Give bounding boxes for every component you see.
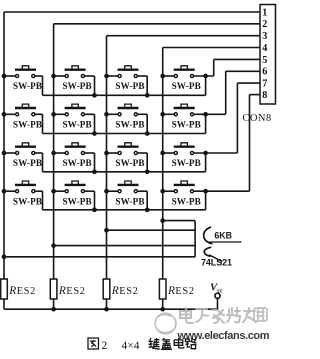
junction row 1 / drop c2 bbox=[92, 93, 97, 98]
push-button switch SW-PB row 3 col 2 bbox=[54, 143, 95, 168]
svg-text:SW-PB: SW-PB bbox=[172, 81, 201, 91]
push-button switch SW-PB row 3 col 3 bbox=[107, 143, 148, 168]
wire drop from SW r4c4 right terminal to row line 4 bbox=[205, 191, 207, 210]
resistor R1 RES2 body bbox=[1, 279, 8, 299]
connector CON8 box bbox=[260, 5, 276, 105]
svg-text:CON8: CON8 bbox=[243, 113, 272, 124]
push-button switch SW-PB row 2 col 2 bbox=[54, 104, 95, 129]
wire drop from SW r1c1 right terminal to row line 1 bbox=[42, 76, 44, 95]
svg-text:4×4: 4×4 bbox=[122, 340, 140, 352]
svg-text:RES2: RES2 bbox=[111, 285, 139, 297]
wire net COL1: lower lead from resistor R1 to bottom rail bbox=[3, 299, 5, 309]
svg-text:SW-PB: SW-PB bbox=[172, 196, 201, 206]
push-button switch SW-PB row 3 col 1 bbox=[4, 143, 43, 168]
junction col4 bus / SW r4c4 left stub bbox=[160, 189, 165, 194]
leader line under 6KB bbox=[209, 241, 242, 243]
junction col2 bus / SW r4c2 left stub bbox=[51, 189, 56, 194]
power terminal Vcc circle bbox=[215, 293, 220, 298]
wire gate bar right edge bbox=[194, 221, 196, 257]
svg-text:8: 8 bbox=[262, 90, 267, 101]
svg-text:SW-PB: SW-PB bbox=[62, 196, 91, 206]
wire drop from SW r3c2 right terminal to row line 3 bbox=[94, 153, 96, 172]
wire net COL3: lower lead from resistor R3 to bottom rail bbox=[106, 299, 108, 309]
wire net COL2: vertical column bus bbox=[53, 24, 55, 279]
cable tear mark upper (6KB) bbox=[204, 227, 213, 244]
junction row 3 / drop c3 bbox=[145, 169, 150, 174]
wire drop from SW r4c2 right terminal to row line 4 bbox=[94, 191, 96, 210]
svg-text:SW-PB: SW-PB bbox=[13, 81, 42, 91]
svg-text:6: 6 bbox=[262, 67, 267, 78]
wire Vcc stub bbox=[217, 298, 219, 309]
svg-text:4: 4 bbox=[262, 43, 267, 54]
wire net COL1: vertical column bus bbox=[3, 12, 5, 279]
junction drop c4 row 2 bbox=[203, 112, 208, 117]
push-button switch SW-PB row 4 col 4 bbox=[163, 181, 250, 206]
junction drop c4 row 1 bbox=[203, 74, 208, 79]
svg-text:RES2: RES2 bbox=[167, 285, 195, 297]
svg-text:SW-PB: SW-PB bbox=[62, 158, 91, 168]
svg-text:SW-PB: SW-PB bbox=[115, 81, 144, 91]
svg-text:6KB: 6KB bbox=[214, 230, 232, 240]
junction drop c4 row 3 bbox=[203, 151, 208, 156]
svg-text:2: 2 bbox=[262, 19, 267, 30]
wire row line 3 bbox=[43, 171, 206, 173]
caption 图 2 4x4 keypad circuit bbox=[88, 338, 196, 352]
push-button switch SW-PB row 2 col 1 bbox=[4, 104, 43, 129]
wire net ROW4: vertical riser bbox=[249, 95, 251, 192]
wire drop from SW r3c3 right terminal to row line 3 bbox=[146, 153, 148, 172]
svg-text:SW-PB: SW-PB bbox=[62, 120, 91, 130]
junction row 2 / drop c2 bbox=[92, 131, 97, 136]
wire net COL2: lower lead from resistor R2 to bottom rail bbox=[53, 299, 55, 309]
push-button switch SW-PB row 2 col 4 bbox=[163, 104, 226, 129]
wire COL1 tap to gate bar bbox=[4, 256, 195, 258]
push-button switch SW-PB row 1 col 2 bbox=[54, 66, 95, 91]
wire net ROW3: horizontal run to CON8 pin 7 bbox=[237, 82, 260, 84]
junction drop c4 row 4 bbox=[203, 189, 208, 194]
resistor R3 RES2 body bbox=[103, 279, 110, 299]
wire COL2 tap to gate bar bbox=[54, 245, 196, 247]
wire net COL4: lower lead from resistor R4 to bottom rail bbox=[162, 299, 164, 309]
junction col3 bus / SW r1c3 left stub bbox=[104, 74, 109, 79]
svg-text:SW-PB: SW-PB bbox=[13, 196, 42, 206]
svg-text:3: 3 bbox=[262, 31, 267, 42]
junction COL4 tap bbox=[160, 218, 165, 223]
svg-text:cc: cc bbox=[217, 287, 223, 294]
svg-text:SW-PB: SW-PB bbox=[172, 120, 201, 130]
junction col4 bus / SW r3c4 left stub bbox=[160, 151, 165, 156]
wire net ROW1: vertical riser bbox=[213, 59, 215, 76]
wire drop from SW r2c4 right terminal to row line 2 bbox=[205, 114, 207, 133]
svg-text:RES2: RES2 bbox=[8, 285, 36, 297]
wire net ROW2: vertical riser bbox=[225, 71, 227, 114]
junction col4 bus / SW r1c4 left stub bbox=[160, 74, 165, 79]
wire drop from SW r3c1 right terminal to row line 3 bbox=[42, 153, 44, 172]
junction bottom rail / R3 bbox=[104, 307, 109, 312]
wire net COL1: horizontal run to CON8 pin 1 bbox=[4, 11, 260, 13]
junction col2 bus / SW r1c2 left stub bbox=[51, 74, 56, 79]
push-button switch SW-PB row 4 col 3 bbox=[107, 181, 148, 206]
svg-text:5: 5 bbox=[262, 55, 267, 66]
svg-text:SW-PB: SW-PB bbox=[62, 81, 91, 91]
wire drop from SW r2c2 right terminal to row line 2 bbox=[94, 114, 96, 133]
wire net COL4: vertical column bus bbox=[162, 48, 164, 280]
svg-text:SW-PB: SW-PB bbox=[172, 158, 201, 168]
wire net ROW1: horizontal run to CON8 pin 5 bbox=[214, 58, 260, 60]
junction row 4 / drop c3 bbox=[145, 207, 150, 212]
wire drop from SW r4c1 right terminal to row line 4 bbox=[42, 191, 44, 210]
junction col2 bus / SW r2c2 left stub bbox=[51, 112, 56, 117]
push-button switch SW-PB row 4 col 2 bbox=[54, 181, 95, 206]
junction COL3 tap bbox=[104, 228, 109, 233]
svg-text:www.elecfans.com: www.elecfans.com bbox=[177, 330, 270, 342]
junction col3 bus / SW r2c3 left stub bbox=[104, 112, 109, 117]
svg-text:SW-PB: SW-PB bbox=[13, 120, 42, 130]
svg-text:SW-PB: SW-PB bbox=[115, 120, 144, 130]
wire row line 2 bbox=[43, 133, 206, 135]
svg-text:RES2: RES2 bbox=[58, 285, 86, 297]
push-button switch SW-PB row 4 col 1 bbox=[4, 181, 43, 206]
wire drop from SW r1c4 right terminal to row line 1 bbox=[205, 76, 207, 95]
wire drop from SW r2c1 right terminal to row line 2 bbox=[42, 114, 44, 133]
svg-text:SW-PB: SW-PB bbox=[115, 158, 144, 168]
wire drop from SW r3c4 right terminal to row line 3 bbox=[205, 153, 207, 172]
push-button switch SW-PB row 3 col 4 bbox=[163, 143, 238, 168]
wire net ROW3: vertical riser bbox=[236, 83, 238, 153]
push-button switch SW-PB row 1 col 1 bbox=[4, 66, 43, 91]
svg-text:7: 7 bbox=[262, 79, 267, 90]
push-button switch SW-PB row 1 col 3 bbox=[107, 66, 148, 91]
junction COL1 tap bbox=[2, 254, 7, 259]
svg-text:2: 2 bbox=[102, 340, 108, 352]
junction col1 bus / SW r2c1 left stub bbox=[2, 112, 7, 117]
wire net ROW4: horizontal run to CON8 pin 8 bbox=[250, 94, 261, 96]
wire net COL4: horizontal run to CON8 pin 4 bbox=[163, 47, 260, 49]
wire net COL2: horizontal run to CON8 pin 2 bbox=[54, 23, 260, 25]
wire drop from SW r2c3 right terminal to row line 2 bbox=[146, 114, 148, 133]
watermark (decorative) bbox=[155, 308, 270, 342]
wire bottom common rail bbox=[4, 308, 218, 310]
junction bottom rail / R2 bbox=[51, 307, 56, 312]
cable tear mark lower (74LS21) bbox=[204, 247, 211, 256]
junction col4 bus / SW r2c4 left stub bbox=[160, 112, 165, 117]
resistor R4 RES2 body bbox=[159, 279, 166, 299]
svg-text:74LS21: 74LS21 bbox=[201, 258, 232, 268]
svg-text:SW-PB: SW-PB bbox=[115, 196, 144, 206]
junction bottom rail / R4 bbox=[160, 307, 165, 312]
junction row 2 / drop c3 bbox=[145, 131, 150, 136]
wire row line 4 bbox=[43, 209, 206, 211]
junction row 3 / drop c2 bbox=[92, 169, 97, 174]
wire net COL3: vertical column bus bbox=[106, 36, 108, 279]
wire drop from SW r4c3 right terminal to row line 4 bbox=[146, 191, 148, 210]
push-button switch SW-PB row 2 col 3 bbox=[107, 104, 148, 129]
resistor R2 RES2 body bbox=[50, 279, 57, 299]
push-button switch SW-PB row 1 col 4 bbox=[163, 66, 214, 91]
junction col3 bus / SW r4c3 left stub bbox=[104, 189, 109, 194]
svg-text:1: 1 bbox=[262, 7, 267, 18]
junction COL2 tap bbox=[51, 243, 56, 248]
junction row 4 / drop c2 bbox=[92, 207, 97, 212]
wire row line 1 bbox=[43, 94, 206, 96]
wire net COL3: horizontal run to CON8 pin 3 bbox=[107, 35, 261, 37]
junction row 1 / drop c3 bbox=[145, 93, 150, 98]
wire drop from SW r1c3 right terminal to row line 1 bbox=[146, 76, 148, 95]
junction col1 bus / SW r1c1 left stub bbox=[2, 74, 7, 79]
junction col2 bus / SW r3c2 left stub bbox=[51, 151, 56, 156]
wire net ROW2: horizontal run to CON8 pin 6 bbox=[226, 70, 260, 72]
wire COL3 tap to gate bar bbox=[107, 229, 196, 231]
tear tail diagonal bbox=[209, 255, 222, 262]
svg-text:SW-PB: SW-PB bbox=[13, 158, 42, 168]
wire COL4 tap to gate bar bbox=[163, 220, 195, 222]
junction col1 bus / SW r4c1 left stub bbox=[2, 189, 7, 194]
wire drop from SW r1c2 right terminal to row line 1 bbox=[94, 76, 96, 95]
junction col3 bus / SW r3c3 left stub bbox=[104, 151, 109, 156]
junction col1 bus / SW r3c1 left stub bbox=[2, 151, 7, 156]
